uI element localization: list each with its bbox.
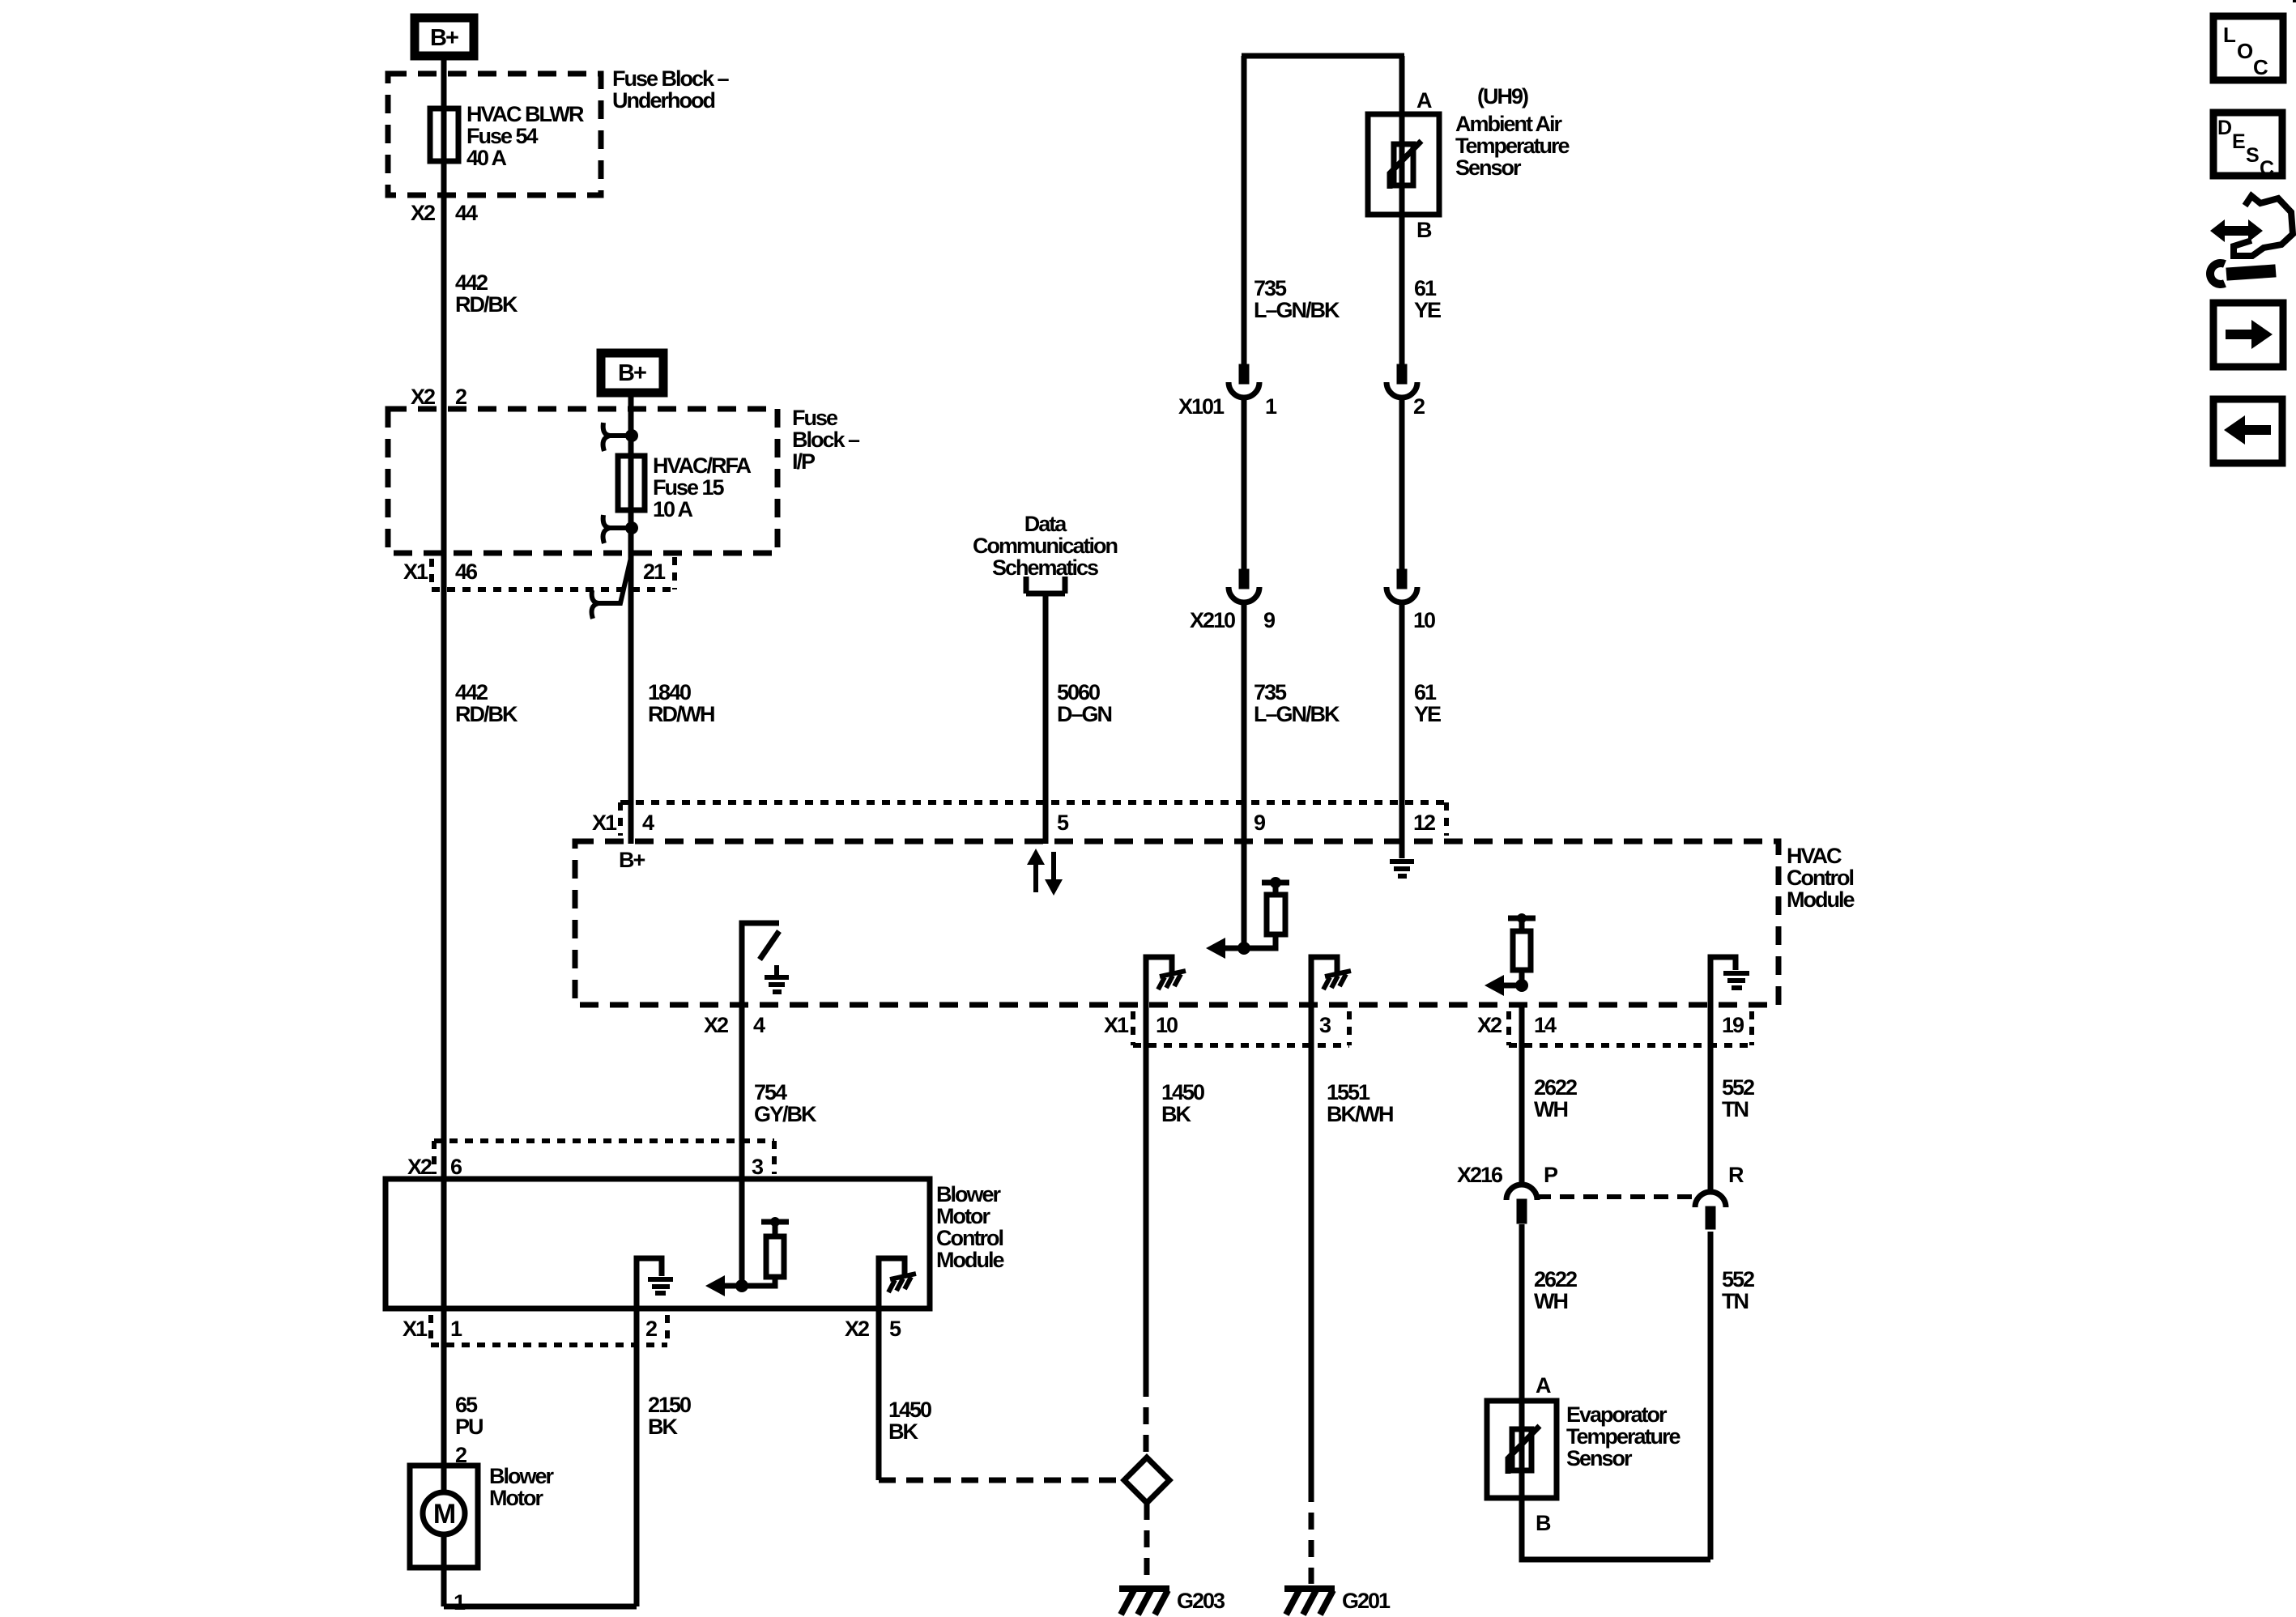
wire 1450 BK from HVAC pin X1-10 (solid part) bbox=[1144, 1005, 1149, 1380]
svg-text:Temperature: Temperature bbox=[1455, 134, 1570, 158]
wire 2150 BK up to blower module pin X1-2 bbox=[634, 1308, 640, 1606]
blower module internal chassis ground hook at pin X2-5 bbox=[879, 1258, 916, 1308]
svg-text:RD/BK: RD/BK bbox=[455, 702, 518, 726]
svg-text:552: 552 bbox=[1722, 1267, 1754, 1291]
svg-text:65: 65 bbox=[455, 1393, 478, 1417]
svg-text:A: A bbox=[1416, 88, 1432, 113]
svg-text:C: C bbox=[2253, 55, 2268, 79]
svg-text:X2: X2 bbox=[411, 385, 435, 409]
svg-text:B: B bbox=[1536, 1511, 1551, 1535]
svg-text:10: 10 bbox=[1413, 608, 1435, 632]
battery B+ symbol 1 bbox=[415, 18, 474, 56]
svg-text:4: 4 bbox=[642, 811, 654, 835]
connector X1 dotted bracket at fuse block I/P bottom bbox=[432, 557, 675, 589]
svg-text:B: B bbox=[1416, 218, 1432, 242]
svg-text:735: 735 bbox=[1254, 276, 1287, 300]
svg-text:Fuse Block –: Fuse Block – bbox=[612, 66, 730, 91]
svg-text:L–GN/BK: L–GN/BK bbox=[1254, 702, 1340, 726]
connector X2 dotted bracket at HVAC bottom right bbox=[1509, 1011, 1752, 1045]
wire dashed below splice diamond to G203 bbox=[1144, 1503, 1150, 1584]
svg-text:X101: X101 bbox=[1178, 394, 1225, 419]
svg-text:B+: B+ bbox=[618, 360, 646, 386]
wire 61 YE middle bbox=[1399, 397, 1405, 571]
svg-text:Module: Module bbox=[936, 1248, 1004, 1272]
svg-text:1450: 1450 bbox=[1161, 1080, 1204, 1104]
svg-text:HVAC/RFA: HVAC/RFA bbox=[653, 453, 752, 478]
svg-text:1: 1 bbox=[450, 1317, 462, 1341]
svg-text:754: 754 bbox=[754, 1080, 787, 1104]
inline connector X216 pin P bbox=[1506, 1185, 1537, 1223]
svg-text:YE: YE bbox=[1414, 298, 1441, 322]
svg-text:14: 14 bbox=[1534, 1013, 1557, 1037]
wire 735 L-GN/BK lower to HVAC junction bbox=[1242, 602, 1247, 948]
svg-text:Ambient Air: Ambient Air bbox=[1455, 112, 1562, 136]
svg-text:TN: TN bbox=[1722, 1289, 1748, 1313]
svg-text:9: 9 bbox=[1254, 811, 1266, 835]
terminal hook with pigtail below pin 21 bbox=[592, 551, 633, 619]
svg-text:Module: Module bbox=[1787, 887, 1855, 912]
svg-text:Underhood: Underhood bbox=[612, 88, 714, 113]
evaporator temperature sensor box bbox=[1487, 1401, 1557, 1498]
wire 61 YE upper through ambient sensor bbox=[1399, 56, 1405, 366]
HVAC internal ground at pin 12 bbox=[1390, 862, 1414, 876]
svg-text:2150: 2150 bbox=[648, 1393, 691, 1417]
svg-text:5: 5 bbox=[1057, 811, 1069, 835]
sidebar vehicle data icon: wrench bbox=[2210, 263, 2275, 284]
svg-text:6: 6 bbox=[450, 1155, 462, 1179]
svg-text:L–GN/BK: L–GN/BK bbox=[1254, 298, 1340, 322]
splice diamond at G203 bbox=[1124, 1457, 1169, 1503]
switch blade (open) bbox=[760, 931, 779, 960]
svg-text:X1: X1 bbox=[403, 560, 428, 584]
svg-text:X2: X2 bbox=[1477, 1013, 1502, 1037]
wire HVAC switch leg at pin X2-4 bbox=[742, 923, 779, 1005]
terminal hook above fuse 15 bbox=[603, 423, 632, 451]
svg-text:S: S bbox=[2246, 144, 2259, 167]
svg-text:HVAC: HVAC bbox=[1787, 844, 1842, 868]
bidirectional data arrows below HVAC pin 5 bbox=[1027, 849, 1063, 896]
svg-text:10: 10 bbox=[1156, 1013, 1178, 1037]
svg-text:1: 1 bbox=[454, 1590, 466, 1615]
svg-text:12: 12 bbox=[1413, 811, 1435, 835]
svg-text:442: 442 bbox=[455, 680, 488, 704]
wire 735 L-GN/BK upper bbox=[1242, 56, 1247, 366]
svg-text:442: 442 bbox=[455, 270, 488, 295]
HVAC internal chassis ground hook at pin 3 bbox=[1311, 957, 1351, 1005]
wire 61 YE lower to HVAC pin 12 ground bbox=[1399, 602, 1405, 858]
svg-text:PU: PU bbox=[455, 1415, 483, 1439]
svg-text:X2: X2 bbox=[411, 201, 435, 225]
inline connector X216 pin R bbox=[1695, 1192, 1726, 1229]
blower module internal resistor bbox=[742, 1222, 789, 1286]
svg-text:Control: Control bbox=[936, 1226, 1003, 1250]
blower motor control module box bbox=[386, 1179, 930, 1308]
sidebar back arrow box bbox=[2213, 399, 2282, 463]
svg-text:BK: BK bbox=[1161, 1102, 1191, 1126]
svg-text:61: 61 bbox=[1414, 276, 1437, 300]
svg-text:Fuse 15: Fuse 15 bbox=[653, 475, 725, 500]
wire 552 TN lower up to X216-R bbox=[1708, 1232, 1714, 1560]
sidebar vehicle data icon: double arrow bbox=[2210, 219, 2263, 242]
svg-text:Fuse 54: Fuse 54 bbox=[466, 124, 539, 148]
svg-text:X210: X210 bbox=[1190, 608, 1235, 632]
ambient air temperature sensor box bbox=[1368, 114, 1439, 215]
svg-text:L: L bbox=[2223, 23, 2236, 47]
svg-text:Motor: Motor bbox=[936, 1204, 990, 1228]
svg-text:Communication: Communication bbox=[973, 534, 1118, 558]
svg-text:GY/BK: GY/BK bbox=[754, 1102, 817, 1126]
inline connector X210 pin 9 bbox=[1229, 569, 1259, 602]
wire 754 GY/BK from HVAC pin X2-4 to blower module junction bbox=[739, 1005, 745, 1286]
svg-text:BK: BK bbox=[888, 1419, 918, 1444]
sidebar forward arrow box bbox=[2213, 303, 2283, 367]
svg-text:X216: X216 bbox=[1457, 1163, 1503, 1187]
wire 442 RD/BK from B+ through Fuse 54 to blower motor bbox=[441, 60, 447, 1606]
HVAC internal sensed resistor for pin 9 bbox=[1244, 883, 1289, 948]
svg-text:I/P: I/P bbox=[792, 449, 816, 474]
svg-text:3: 3 bbox=[1319, 1013, 1331, 1037]
svg-text:Motor: Motor bbox=[489, 1486, 543, 1510]
svg-text:B+: B+ bbox=[619, 848, 645, 872]
ground symbol G201 bbox=[1284, 1589, 1335, 1615]
svg-text:61: 61 bbox=[1414, 680, 1437, 704]
svg-text:Temperature: Temperature bbox=[1566, 1424, 1681, 1449]
svg-text:2622: 2622 bbox=[1534, 1267, 1577, 1291]
svg-text:BK: BK bbox=[648, 1415, 678, 1439]
wire 1450 BK dashed run to splice diamond bbox=[879, 1478, 1124, 1483]
svg-text:(UH9): (UH9) bbox=[1477, 84, 1528, 109]
page corner tick bbox=[2293, 0, 2296, 2]
HVAC internal switch earth ground bbox=[765, 965, 789, 992]
wire 1840 RD/WH from B+ through Fuse 15 to HVAC pin X1-4 bbox=[628, 397, 634, 844]
svg-text:46: 46 bbox=[455, 560, 478, 584]
svg-text:Control: Control bbox=[1787, 866, 1853, 890]
svg-text:19: 19 bbox=[1722, 1013, 1744, 1037]
connector X1 dotted bracket at HVAC bottom left bbox=[1133, 1011, 1349, 1045]
svg-text:WH: WH bbox=[1534, 1289, 1567, 1313]
svg-text:21: 21 bbox=[643, 560, 666, 584]
wire blower motor bottom to pin 2 return bbox=[444, 1604, 637, 1610]
connector X1 dotted bracket at blower module bottom bbox=[431, 1315, 667, 1345]
thermistor evaporator temp sensor bbox=[1508, 1426, 1540, 1474]
svg-text:Blower: Blower bbox=[489, 1464, 555, 1488]
svg-text:2622: 2622 bbox=[1534, 1075, 1577, 1100]
svg-text:1551: 1551 bbox=[1327, 1080, 1370, 1104]
svg-text:HVAC BLWR: HVAC BLWR bbox=[466, 102, 584, 126]
svg-text:BK/WH: BK/WH bbox=[1327, 1102, 1393, 1126]
wire 1551 BK/WH dashed to G201 bbox=[1309, 1485, 1314, 1584]
svg-text:552: 552 bbox=[1722, 1075, 1754, 1100]
svg-text:M: M bbox=[433, 1499, 455, 1530]
wire 735 L-GN/BK middle bbox=[1242, 397, 1247, 571]
blower motor box bbox=[410, 1466, 478, 1568]
svg-text:Block –: Block – bbox=[792, 428, 860, 452]
HVAC signal arrow at pin 9 junction bbox=[1223, 946, 1244, 951]
terminal hook below fuse 15 bbox=[603, 515, 632, 543]
svg-text:A: A bbox=[1536, 1373, 1551, 1398]
svg-text:X1: X1 bbox=[592, 811, 617, 835]
svg-text:2: 2 bbox=[455, 385, 466, 409]
inline connector X101 pin 2 bbox=[1387, 364, 1417, 398]
blower module signal arrow bbox=[724, 1283, 742, 1289]
svg-text:O: O bbox=[2237, 39, 2253, 63]
connector X216 dashed link P to R bbox=[1536, 1194, 1696, 1199]
svg-text:1840: 1840 bbox=[648, 680, 691, 704]
svg-text:Data: Data bbox=[1024, 512, 1068, 536]
svg-text:735: 735 bbox=[1254, 680, 1287, 704]
svg-text:X1: X1 bbox=[1104, 1013, 1129, 1037]
svg-text:P: P bbox=[1544, 1163, 1558, 1187]
svg-text:G203: G203 bbox=[1177, 1589, 1225, 1613]
svg-text:2: 2 bbox=[1413, 394, 1425, 419]
svg-text:D–GN: D–GN bbox=[1057, 702, 1112, 726]
blower module internal earth ground hook at pin X1-2 bbox=[637, 1258, 673, 1308]
svg-text:Fuse: Fuse bbox=[792, 406, 838, 430]
HVAC internal earth ground hook at pin 19 bbox=[1710, 957, 1749, 1005]
HVAC internal sensed resistor at pin X2-14 bbox=[1508, 918, 1536, 985]
wire 2622 WH from HVAC pin X2-14 to X216-P bbox=[1519, 1005, 1525, 1184]
wire 1450 BK from blower module pin X2-5 bbox=[876, 1308, 882, 1480]
svg-text:G201: G201 bbox=[1342, 1589, 1391, 1613]
svg-text:5: 5 bbox=[889, 1317, 901, 1341]
svg-text:X2: X2 bbox=[845, 1317, 869, 1341]
svg-text:C: C bbox=[2260, 157, 2274, 180]
data communication off-page bracket bbox=[1026, 577, 1065, 594]
HVAC control module dashed box bbox=[575, 841, 1778, 1005]
HVAC internal chassis ground hook at pin X1-10 bbox=[1146, 957, 1186, 1005]
svg-text:Sensor: Sensor bbox=[1566, 1446, 1633, 1470]
svg-text:2: 2 bbox=[455, 1443, 466, 1467]
svg-text:3: 3 bbox=[752, 1155, 764, 1179]
svg-text:10 A: 10 A bbox=[653, 497, 693, 521]
svg-text:YE: YE bbox=[1414, 702, 1441, 726]
svg-text:B+: B+ bbox=[430, 25, 458, 51]
svg-text:4: 4 bbox=[753, 1013, 765, 1037]
svg-text:D: D bbox=[2217, 117, 2231, 139]
svg-text:X2: X2 bbox=[407, 1155, 432, 1179]
wire evaporator sensor B return bbox=[1522, 1498, 1710, 1560]
svg-text:Sensor: Sensor bbox=[1455, 155, 1522, 180]
sidebar LOC box bbox=[2213, 16, 2283, 80]
svg-text:Schematics: Schematics bbox=[992, 555, 1098, 580]
svg-text:1: 1 bbox=[1265, 394, 1277, 419]
svg-text:44: 44 bbox=[455, 201, 478, 225]
wire 1450 BK dashed to splice diamond bbox=[1144, 1380, 1149, 1457]
svg-text:R: R bbox=[1728, 1163, 1744, 1187]
connector X2 dotted bracket at blower module top bbox=[434, 1141, 774, 1174]
inline connector X210 pin 10 bbox=[1387, 569, 1417, 602]
fuse block I/P dashed box bbox=[388, 409, 777, 553]
svg-text:5060: 5060 bbox=[1057, 680, 1100, 704]
wire 1551 BK/WH from HVAC pin 3 (solid part) bbox=[1309, 1005, 1314, 1485]
sidebar DESC box bbox=[2213, 113, 2282, 176]
svg-text:40 A: 40 A bbox=[466, 146, 507, 170]
wire 2622 WH from X216-P to evaporator sensor A bbox=[1519, 1224, 1525, 1498]
connector X1 dotted bracket at HVAC top bbox=[620, 802, 1446, 836]
thermistor ambient air temp sensor bbox=[1390, 141, 1421, 189]
battery B+ symbol 2 bbox=[601, 353, 663, 393]
fuse F54 HVAC BLWR bbox=[430, 109, 458, 161]
wire top link 735 to 61 bbox=[1242, 53, 1404, 59]
blower motor M circle bbox=[423, 1492, 465, 1534]
svg-text:2: 2 bbox=[645, 1317, 657, 1341]
fuse block underhood dashed box bbox=[388, 74, 601, 195]
svg-text:RD/BK: RD/BK bbox=[455, 292, 518, 317]
svg-text:E: E bbox=[2232, 130, 2245, 153]
ground symbol G203 bbox=[1119, 1589, 1169, 1615]
svg-text:RD/WH: RD/WH bbox=[648, 702, 714, 726]
wire 5060 D-GN to HVAC pin 5 bbox=[1043, 594, 1049, 844]
wire 552 TN from HVAC pin 19 down to X216-R bbox=[1708, 1005, 1714, 1193]
HVAC signal arrow at pin X2-14 junction bbox=[1503, 983, 1522, 989]
svg-text:WH: WH bbox=[1534, 1097, 1567, 1121]
svg-text:TN: TN bbox=[1722, 1097, 1748, 1121]
svg-text:1450: 1450 bbox=[888, 1398, 931, 1422]
svg-text:9: 9 bbox=[1263, 608, 1276, 632]
svg-text:Blower: Blower bbox=[936, 1182, 1002, 1206]
svg-text:X1: X1 bbox=[403, 1317, 428, 1341]
sidebar vehicle data icon: outline arrow bbox=[2234, 196, 2293, 256]
fuse F15 HVAC/RFA bbox=[618, 456, 645, 510]
svg-text:Evaporator: Evaporator bbox=[1566, 1402, 1668, 1427]
inline connector X101 pin 1 (terminal bar and cup) bbox=[1229, 364, 1259, 398]
svg-text:X2: X2 bbox=[704, 1013, 728, 1037]
